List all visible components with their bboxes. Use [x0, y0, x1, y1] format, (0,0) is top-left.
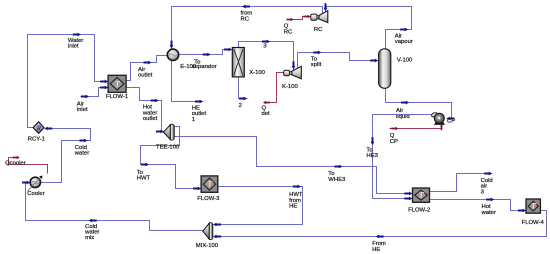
- wire stream Hot water (FLOW-2 to FLOW-4): [430, 198, 527, 213]
- unit K-100 (compressor): [284, 66, 302, 79]
- unit TEE-100 (tee splitter): [163, 124, 174, 140]
- wire stream Air outlet (FLOW-1 to E-100): [126, 56, 168, 81]
- svg-text:Qcooler: Qcooler: [5, 161, 26, 167]
- unit RC (recompressor): [311, 11, 328, 23]
- unit label RC: [314, 27, 323, 33]
- unit CP (pump): [431, 112, 445, 125]
- svg-text:2: 2: [239, 103, 242, 109]
- wire stream Water inlet (RCY-1 to FLOW-1): [28, 33, 109, 128]
- svg-text:V-100: V-100: [397, 58, 413, 64]
- stream label HE outlet 1: [192, 105, 207, 122]
- energy label Q CP: [390, 133, 398, 145]
- svg-text:FLOW-3: FLOW-3: [197, 196, 220, 202]
- unit label RCY-1: [28, 137, 45, 143]
- wire stream Cold water (Cooler to RCY-1): [41, 127, 91, 183]
- stream label To HWT: [137, 170, 151, 182]
- wire stream To separator (E-100 to X-100): [179, 48, 233, 57]
- wire stream HWT from HE (FLOW-3 to MIX-100): [213, 185, 302, 227]
- stream label From HE: [372, 241, 386, 253]
- svg-text:FLOW-2: FLOW-2: [408, 208, 430, 214]
- stream label To HE3: [366, 147, 378, 159]
- stream label Cold air 3: [481, 178, 493, 195]
- svg-text:FLOW-4: FLOW-4: [522, 220, 545, 226]
- svg-text:CP: CP: [447, 119, 455, 125]
- wire stream To HWT (TEE-100 to FLOW-3): [141, 127, 202, 191]
- energy stream Qcooler (Cooler duty): [9, 156, 48, 174]
- stream label 3: [263, 44, 267, 50]
- stream label Water inlet: [68, 38, 84, 50]
- unit label FLOW-1: [106, 94, 128, 100]
- energy stream Q RC (duty into compressor RC): [287, 15, 311, 21]
- unit label V-100: [397, 58, 413, 64]
- unit label FLOW-3: [197, 196, 220, 202]
- unit X-100 (separator column): [232, 48, 244, 77]
- unit label E-100: [180, 64, 196, 70]
- stream label Air vapour: [395, 33, 413, 45]
- unit label X-100: [249, 70, 265, 76]
- svg-text:MIX-100: MIX-100: [196, 243, 219, 249]
- wire stream To split (K-100 to V-100): [298, 51, 379, 68]
- stream label Hot water outlet: [142, 105, 158, 122]
- stream label 2: [239, 103, 242, 109]
- svg-text:X-100: X-100: [249, 70, 265, 76]
- wire stream Air inlet (into FLOW-1): [81, 86, 109, 99]
- svg-text:K-100: K-100: [282, 84, 298, 90]
- stream label To WHE3: [328, 171, 346, 183]
- unit label K-100: [282, 84, 298, 90]
- svg-text:Cooler: Cooler: [27, 191, 44, 197]
- unit FLOW-2 (heat exchanger block): [413, 188, 430, 202]
- stream label Air outlet: [138, 67, 153, 79]
- stream label Air liquid: [396, 108, 410, 120]
- energy label Qcooler: [5, 161, 26, 167]
- wire stream 2 (X-100 bottom product): [239, 78, 248, 101]
- unit label FLOW-2: [408, 208, 430, 214]
- unit Cooler (with diagonal arrow): [28, 176, 43, 192]
- stream label from RC: [241, 11, 253, 23]
- svg-text:RC: RC: [314, 27, 323, 33]
- unit E-100 (heat exchanger): [167, 49, 178, 60]
- stream label Hot water: [481, 204, 496, 216]
- stream label Cold water mix: [84, 224, 99, 241]
- svg-text:RCY-1: RCY-1: [28, 137, 45, 143]
- wire stream To WHE3 (TEE-100 to FLOW-2): [175, 137, 413, 196]
- energy stream Q CP (duty into pump CP): [390, 124, 444, 130]
- wire stream Air vapour (V-100 top to RC): [324, 3, 412, 48]
- svg-text:E-100: E-100: [180, 64, 196, 70]
- wire stream To HE3 (pump CP outlet to FLOW-2): [371, 115, 432, 201]
- wire stream HE outlet 1 (E-100 bottom outlet): [172, 61, 204, 104]
- wire stream 3 (X-100 top to K-100): [239, 40, 296, 70]
- wire stream Cold air 3 (FLOW-2 top outlet): [430, 172, 493, 192]
- unit FLOW-3 (heat exchanger block): [201, 176, 218, 192]
- wire stream From HE (FLOW-4 to MIX-100): [213, 211, 546, 239]
- unit label TEE-100: [156, 144, 180, 150]
- svg-text:Coldwater: Coldwater: [74, 145, 89, 157]
- unit label Cooler: [27, 191, 44, 197]
- svg-text:FLOW-1: FLOW-1: [106, 94, 128, 100]
- energy stream Q det (duty of compressor K-100): [263, 73, 284, 105]
- energy label Q RC: [284, 24, 293, 36]
- unit V-100 (vapour-liquid separator vessel): [379, 49, 391, 89]
- stream label To separator: [192, 59, 217, 70]
- wire stream Hot water outlet (FLOW-1 to TEE-100): [126, 88, 164, 134]
- unit MIX-100 (mixer): [203, 223, 213, 240]
- wire stream from RC (RC outlet to E-100 top): [170, 5, 323, 49]
- unit label CP: [447, 119, 455, 125]
- unit FLOW-4 (heat exchanger block): [526, 199, 540, 213]
- energy label Q det: [262, 105, 271, 117]
- unit label MIX-100: [196, 243, 219, 249]
- stream label Cold water: [74, 145, 89, 157]
- stream label Air inlet: [77, 101, 88, 113]
- unit RCY-1 (recycle): [33, 122, 44, 134]
- wire stream Cold water mix (MIX-100 to Cooler): [22, 181, 202, 231]
- svg-text:TEE-100: TEE-100: [156, 144, 180, 150]
- unit FLOW-1 (heat exchanger block): [108, 75, 126, 92]
- svg-text:R: R: [35, 124, 41, 132]
- wire stream Air liquid (V-100 bottom to pump CP): [386, 89, 455, 121]
- stream label HWT from HE: [289, 192, 303, 209]
- stream label To split: [311, 57, 322, 69]
- unit label FLOW-4: [522, 220, 545, 226]
